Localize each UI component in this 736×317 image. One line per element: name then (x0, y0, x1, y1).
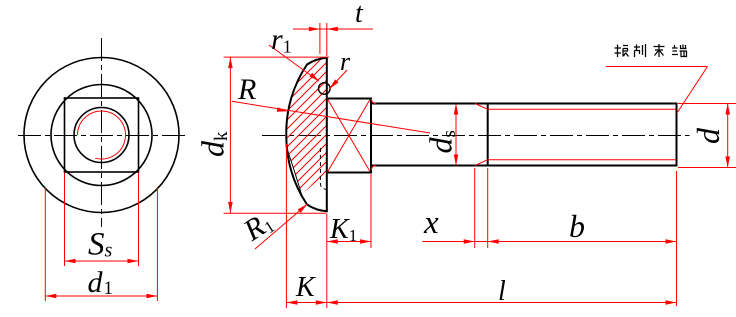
svg-text:dk: dk (195, 131, 233, 157)
char zhi4 制 (634, 44, 646, 57)
dimension d extension lines (678, 104, 736, 168)
fillet neck-shank bottom (372, 166, 377, 171)
square neck (side view) (328, 99, 371, 173)
leader r1 (269, 45, 319, 81)
label d (690, 127, 726, 144)
arrow r1 (309, 73, 319, 82)
extension line full thread start (487, 168, 489, 248)
arrows d_k (228, 57, 233, 213)
arrows l (327, 300, 677, 305)
dimension d1 extension lines (44, 187, 46, 301)
leader r (329, 70, 347, 89)
extension line bolt end (676, 171, 678, 306)
thread minor diameter lines (red) (372, 99, 677, 170)
arrows d_s (454, 104, 459, 166)
arrow x (outside) (464, 239, 475, 244)
arrows K (286, 300, 326, 305)
label d_k (195, 131, 233, 157)
main axis centerline (262, 135, 690, 137)
arrows d1 (45, 294, 56, 299)
dimension K extension line (285, 144, 287, 308)
dimension d1 line (45, 295, 157, 297)
svg-text:K1: K1 (329, 214, 357, 245)
shank top line (371, 103, 677, 105)
dimension t line (293, 28, 373, 30)
arrows K1 (327, 239, 371, 244)
fillet neck-shank top (372, 99, 377, 104)
square neck outline S_s (left view) (65, 98, 139, 172)
thread runout chamfer lines (475, 104, 488, 110)
head dome outline R (286, 58, 328, 212)
dimension S_s extension lines (45, 173, 157, 301)
arrow R (277, 107, 288, 112)
centerline vertical (left view) (101, 38, 103, 227)
dimension d line (727, 104, 729, 168)
thread start line (487, 104, 489, 166)
char duan1 端 (672, 45, 687, 57)
svg-text:b: b (569, 208, 585, 244)
dimension d_s line (455, 104, 457, 166)
arrows t (309, 27, 338, 32)
svg-text:R1: R1 (237, 205, 278, 248)
leader R (232, 101, 430, 133)
thread major circle (left view) (74, 108, 129, 163)
svg-text:d1: d1 (88, 266, 114, 299)
arrow R1 (298, 204, 308, 213)
svg-text:t: t (355, 0, 364, 29)
arrows b (488, 239, 677, 244)
svg-text:Ss: Ss (88, 227, 113, 263)
svg-text:x: x (423, 205, 439, 241)
svg-text:l: l (498, 276, 506, 307)
label R1 (237, 205, 278, 248)
svg-text:ds: ds (423, 130, 461, 153)
dimension x line (422, 168, 487, 248)
dimension S_s line (65, 260, 139, 262)
break line (partial section boundary) (287, 147, 302, 195)
dimension t extension lines (293, 23, 373, 56)
head bearing face line (326, 58, 328, 212)
rolled-end underline (606, 66, 708, 68)
svg-text:r1: r1 (271, 23, 292, 57)
square neck X cross (328, 100, 370, 172)
svg-text:r: r (340, 47, 351, 76)
dimension l line (327, 302, 677, 304)
hidden groove line (dashed) (320, 148, 326, 190)
label d_s (423, 130, 461, 153)
char zhan3 辗 (615, 45, 629, 58)
arrows d (725, 104, 730, 168)
bearing face circle d1 (left view) (51, 85, 152, 186)
hatching (head section) (110, 50, 474, 225)
dimension K1 extension lines (327, 174, 371, 308)
svg-text:K: K (295, 272, 316, 303)
dimension d_k extension lines (224, 57, 329, 213)
dimension b line (488, 241, 677, 243)
under-head groove circle (section) (319, 83, 331, 95)
rolled-end leader (677, 67, 708, 114)
svg-text:d: d (690, 127, 726, 144)
shank bottom line (371, 165, 677, 167)
char mo4 末 (654, 44, 665, 57)
leader R1 (255, 204, 308, 249)
svg-text:R: R (237, 73, 256, 106)
arrow r (329, 79, 338, 89)
centerline horizontal (left view) (18, 38, 188, 227)
dimension d_k line (229, 57, 231, 213)
label rolled-end note 辗制末端 (drawn strokes) (615, 44, 688, 57)
head outer circle d_k (left view) (24, 58, 179, 213)
dimension K1 line (327, 241, 371, 243)
thread minor arc (left view, red thin 3/4 circle) (78, 111, 126, 159)
extension line chamfer start (474, 168, 476, 248)
arrows S_s (45, 259, 157, 299)
dimension K line (286, 302, 326, 304)
end face line (676, 103, 678, 167)
